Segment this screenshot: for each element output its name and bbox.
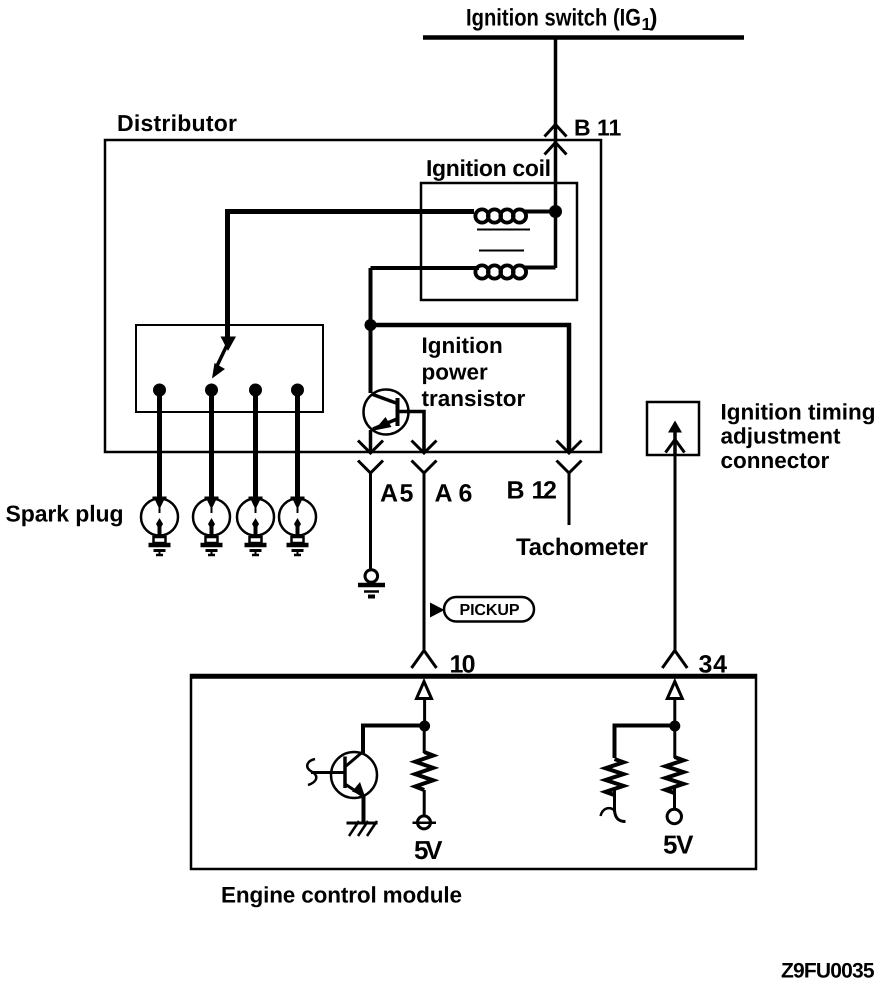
distributor cap contact box <box>136 325 323 412</box>
wire: ignition switch bus bar <box>423 35 744 40</box>
node: cap contact 4 <box>291 384 304 397</box>
wire: pin B12 to tachometer <box>568 473 571 525</box>
connector pin B11 (entry chevrons) <box>545 125 567 155</box>
node: coil common junction dot <box>549 205 562 218</box>
svg-text:PICKUP: PICKUP <box>460 602 520 619</box>
svg-text:10: 10 <box>450 651 476 679</box>
connector pin B12 <box>557 441 582 474</box>
node: 5V terminal (pin34 side) <box>667 809 681 823</box>
svg-text:B12: B12 <box>507 477 557 505</box>
wire: R2 continuation squiggle <box>601 808 626 821</box>
spark plug 4 <box>279 499 316 556</box>
svg-text:A5: A5 <box>380 480 414 508</box>
svg-text:Distributor: Distributor <box>117 110 237 136</box>
ignition timing adjustment connector box <box>647 402 699 455</box>
distributor box <box>105 140 601 452</box>
svg-text:): ) <box>650 5 658 32</box>
wire: coil secondary to collector junction <box>369 268 373 325</box>
wire: pin A6 to ECM pin 10 <box>423 473 426 651</box>
wire: timing connector to ECM pin 34 <box>674 455 677 651</box>
distributor rotor switch arm <box>212 337 236 379</box>
wire: pin 34 into ECM <box>673 698 676 726</box>
wire: R1 to 5V terminal <box>423 790 426 816</box>
svg-text:34: 34 <box>699 651 728 679</box>
label: PICKUP balloon <box>444 597 534 622</box>
wire: junction to R1 <box>423 726 426 753</box>
ignition coil box <box>421 183 577 300</box>
svg-text:Z9FU0035: Z9FU0035 <box>781 960 875 982</box>
spark plug 3 <box>237 499 274 556</box>
wire: junction to B12 <box>371 325 570 452</box>
wire: junction to transistor collector <box>369 325 373 393</box>
node: cap contact 3 <box>249 384 262 397</box>
wire: plug lead 3 <box>253 390 258 502</box>
ignition coil core <box>477 230 530 251</box>
wire: pin A5 to ground <box>369 473 372 570</box>
ground: distributor case ground <box>358 570 385 599</box>
node: 5V terminal (pin10 side) <box>413 816 437 829</box>
wire: plug lead 1 <box>157 390 162 502</box>
connector pin 34 <box>662 651 687 699</box>
resistor R1 (pin10 pull-up) <box>415 752 433 790</box>
wire: Q1 emitter to pin A5 <box>369 430 373 452</box>
wire: coil tower to distributor rotor <box>228 212 475 342</box>
node: cap contact 2 <box>205 384 218 397</box>
wire: junction to R2 branch <box>615 726 675 759</box>
transistor Q1 ignition power transistor <box>364 390 409 435</box>
wire: junction to Q2 collector <box>363 726 425 754</box>
transistor Q2 (ECM driver) <box>307 752 377 798</box>
ignition coil secondary winding <box>371 265 556 278</box>
pickup pointer arrow <box>430 603 445 618</box>
svg-text:Ignition switch (IG: Ignition switch (IG <box>466 5 641 32</box>
connector pin 10 <box>412 651 437 699</box>
node: collector junction dot <box>365 319 377 331</box>
connector pin A5 <box>358 441 383 474</box>
spark plug 2 <box>193 499 230 556</box>
ground: Q2 emitter chassis ground <box>347 821 378 836</box>
node: ECM pin34 junction dot <box>669 721 680 732</box>
wire: Q1 base to pin A6 <box>398 412 424 453</box>
resistor R2 (pin34 left branch) <box>606 759 624 795</box>
wire: plug lead 4 <box>295 390 300 502</box>
wire: Q2 emitter to chassis ground <box>362 795 366 823</box>
node: cap contact 1 <box>153 384 166 397</box>
wire: R3 to 5V terminal <box>673 788 676 809</box>
node: ECM pin10 junction dot <box>419 721 430 732</box>
spark plug 1 <box>141 499 178 556</box>
ignition coil primary winding <box>475 209 555 222</box>
svg-text:Ignition coil: Ignition coil <box>426 155 551 181</box>
svg-text:5V: 5V <box>663 830 694 860</box>
connector pin A6 <box>412 441 437 474</box>
wire: junction to R3 <box>673 726 676 758</box>
wire: ignition switch to pin B11 <box>554 37 558 140</box>
svg-text:5V: 5V <box>414 835 443 865</box>
resistor R3 (pin34 pull-up) <box>666 757 684 793</box>
engine control module box <box>191 675 756 869</box>
wire: pin 10 into ECM <box>423 698 426 726</box>
svg-text:Tachometer: Tachometer <box>516 534 648 561</box>
svg-text:B 11: B 11 <box>574 115 622 141</box>
wire: R2 to internal circuit <box>613 789 616 812</box>
wire: B11 to coil common terminal <box>554 140 558 268</box>
wire: plug lead 2 <box>209 390 214 502</box>
svg-text:Spark plug: Spark plug <box>6 501 124 527</box>
svg-text:Engine control module: Engine control module <box>221 883 462 908</box>
